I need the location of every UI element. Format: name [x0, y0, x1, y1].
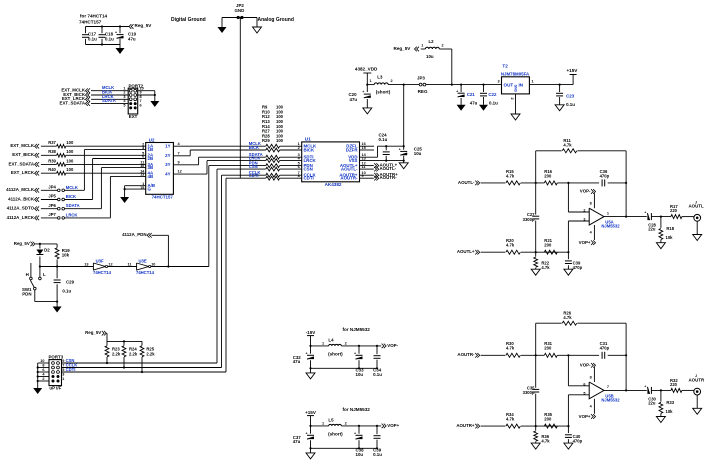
- svg-text:4.7k: 4.7k: [506, 346, 515, 351]
- svg-text:9: 9: [62, 359, 64, 363]
- svg-text:200: 200: [544, 417, 552, 422]
- svg-text:8: 8: [590, 375, 592, 379]
- svg-text:5: 5: [123, 104, 125, 108]
- svg-text:C22: C22: [488, 92, 497, 97]
- svg-text:10u: 10u: [356, 452, 364, 457]
- svg-text:AOUTL: AOUTL: [689, 204, 704, 209]
- svg-text:3B: 3B: [148, 165, 154, 170]
- svg-text:(short): (short): [376, 90, 391, 95]
- svg-text:4B: 4B: [148, 174, 154, 179]
- svg-text:U1: U1: [305, 136, 311, 141]
- svg-text:EXT_LRCK: EXT_LRCK: [11, 170, 35, 175]
- svg-text:2: 2: [510, 98, 514, 100]
- svg-text:4112A_PDN: 4112A_PDN: [122, 232, 146, 237]
- svg-text:EXT_SDATA: EXT_SDATA: [9, 161, 35, 166]
- svg-text:+: +: [456, 89, 458, 93]
- svg-text:5: 5: [62, 368, 64, 372]
- svg-text:1: 1: [532, 80, 534, 84]
- svg-text:10u: 10u: [356, 372, 364, 377]
- svg-text:2.2k: 2.2k: [112, 351, 121, 356]
- svg-text:10k: 10k: [666, 409, 674, 414]
- svg-text:2Y: 2Y: [165, 153, 170, 158]
- svg-text:47u: 47u: [293, 359, 301, 364]
- svg-text:CDTI: CDTI: [249, 173, 259, 178]
- svg-text:for 74HCT14: for 74HCT14: [80, 14, 108, 19]
- svg-text:6: 6: [140, 104, 142, 108]
- svg-text:1B: 1B: [148, 147, 154, 152]
- svg-text:4.7k: 4.7k: [506, 243, 515, 248]
- svg-text:6: 6: [142, 155, 144, 159]
- svg-text:JP6: JP6: [48, 203, 56, 208]
- svg-text:L2: L2: [429, 39, 435, 44]
- svg-text:L5: L5: [328, 417, 334, 422]
- svg-text:0.1u: 0.1u: [489, 101, 498, 106]
- svg-text:10: 10: [151, 262, 155, 266]
- svg-text:VOP+: VOP+: [387, 423, 399, 428]
- svg-text:6: 6: [42, 368, 44, 372]
- svg-text:Reg_5V: Reg_5V: [14, 241, 30, 246]
- svg-text:LRCK: LRCK: [66, 212, 78, 217]
- svg-text:2.2k: 2.2k: [146, 351, 155, 356]
- svg-text:8: 8: [298, 174, 300, 178]
- svg-text:1: 1: [322, 421, 324, 425]
- svg-text:EXT_SDATA: EXT_SDATA: [60, 100, 86, 105]
- svg-text:GND: GND: [235, 8, 245, 13]
- svg-text:EXT: EXT: [129, 114, 138, 119]
- svg-text:U2: U2: [149, 137, 155, 142]
- svg-text:+: +: [644, 211, 646, 215]
- svg-text:H: H: [26, 272, 29, 277]
- svg-text:13: 13: [84, 262, 88, 266]
- svg-text:VOP-: VOP-: [580, 362, 591, 367]
- svg-text:NJM5532: NJM5532: [601, 224, 620, 229]
- svg-text:SDATA: SDATA: [66, 203, 80, 208]
- svg-text:1Y: 1Y: [165, 144, 170, 149]
- svg-text:3: 3: [583, 218, 585, 222]
- svg-text:(short): (short): [328, 431, 343, 436]
- svg-text:G: G: [148, 187, 152, 192]
- svg-text:for NJM5532: for NJM5532: [343, 407, 371, 412]
- svg-text:R33: R33: [666, 400, 674, 405]
- svg-text:8: 8: [42, 363, 44, 367]
- svg-text:47u: 47u: [293, 439, 301, 444]
- svg-text:100: 100: [66, 149, 74, 154]
- svg-text:+: +: [399, 148, 401, 152]
- svg-text:3300p: 3300p: [523, 217, 535, 222]
- svg-text:4112A_SDTO: 4112A_SDTO: [7, 206, 35, 211]
- svg-text:7: 7: [607, 385, 609, 389]
- svg-text:NJM78M05FA: NJM78M05FA: [501, 71, 530, 76]
- svg-text:220: 220: [670, 208, 678, 213]
- svg-text:74HCT157: 74HCT157: [79, 20, 102, 25]
- svg-text:CDTI: CDTI: [304, 176, 314, 181]
- svg-text:OUT: OUT: [504, 83, 514, 88]
- svg-text:+15V: +15V: [305, 410, 317, 415]
- svg-text:470p: 470p: [600, 173, 610, 178]
- svg-text:3: 3: [142, 146, 144, 150]
- svg-text:R38: R38: [48, 149, 56, 154]
- svg-text:10k: 10k: [666, 235, 674, 240]
- svg-text:200: 200: [544, 173, 552, 178]
- svg-text:10k: 10k: [62, 253, 70, 258]
- svg-text:PDN: PDN: [22, 291, 31, 296]
- svg-text:+: +: [354, 351, 356, 355]
- svg-text:NJM5532: NJM5532: [601, 397, 620, 402]
- svg-text:BICK: BICK: [66, 194, 76, 199]
- svg-text:6: 6: [583, 382, 585, 386]
- svg-text:VOP-: VOP-: [387, 343, 398, 348]
- svg-text:47u: 47u: [350, 97, 358, 102]
- svg-text:22u: 22u: [648, 227, 656, 232]
- svg-text:100: 100: [66, 158, 74, 163]
- svg-text:2: 2: [298, 146, 300, 150]
- svg-text:L: L: [43, 272, 46, 277]
- svg-text:1: 1: [607, 211, 609, 215]
- svg-text:2: 2: [391, 79, 393, 83]
- svg-text:C21: C21: [467, 92, 476, 97]
- svg-text:9: 9: [178, 160, 180, 164]
- svg-text:74HCT14: 74HCT14: [136, 270, 155, 275]
- svg-text:100: 100: [66, 140, 74, 145]
- svg-text:BICK: BICK: [249, 145, 259, 150]
- svg-text:47u: 47u: [128, 37, 136, 42]
- svg-text:11: 11: [127, 262, 131, 266]
- svg-text:CSN: CSN: [249, 164, 258, 169]
- svg-text:VOP-: VOP-: [580, 189, 591, 194]
- svg-text:JP7: JP7: [48, 212, 56, 217]
- svg-text:3Y: 3Y: [165, 162, 170, 167]
- svg-text:0.1u: 0.1u: [566, 102, 575, 107]
- svg-text:Reg_5V: Reg_5V: [135, 23, 153, 28]
- svg-text:D2: D2: [44, 248, 50, 253]
- svg-text:0.1u: 0.1u: [373, 372, 382, 377]
- svg-text:L4: L4: [328, 337, 334, 342]
- svg-text:C23: C23: [566, 94, 575, 99]
- svg-text:R18: R18: [666, 226, 674, 231]
- svg-text:4112A_LRCK: 4112A_LRCK: [7, 215, 35, 220]
- svg-text:uP I/F: uP I/F: [49, 385, 61, 390]
- svg-text:+: +: [362, 90, 364, 94]
- svg-text:1: 1: [322, 341, 324, 345]
- svg-text:12: 12: [178, 170, 182, 174]
- svg-text:U3F: U3F: [96, 258, 104, 263]
- svg-text:4.7k: 4.7k: [563, 143, 572, 148]
- svg-text:0.1u: 0.1u: [105, 37, 114, 42]
- svg-text:22u: 22u: [648, 400, 656, 405]
- svg-text:4.7k: 4.7k: [506, 417, 515, 422]
- svg-text:+: +: [644, 384, 646, 388]
- svg-text:AK4382: AK4382: [325, 182, 342, 187]
- svg-text:100: 100: [276, 138, 284, 143]
- svg-text:Digital Ground: Digital Ground: [171, 17, 206, 23]
- svg-text:1: 1: [62, 377, 64, 381]
- svg-text:5: 5: [583, 391, 585, 395]
- svg-text:4382_VDD: 4382_VDD: [355, 67, 378, 72]
- svg-text:0.1u: 0.1u: [379, 137, 388, 142]
- svg-text:6: 6: [298, 165, 300, 169]
- svg-text:R29: R29: [262, 138, 270, 143]
- svg-text:10u: 10u: [414, 151, 422, 156]
- svg-text:470p: 470p: [573, 439, 583, 444]
- svg-text:2.2k: 2.2k: [129, 351, 138, 356]
- svg-text:0.1u: 0.1u: [88, 37, 97, 42]
- svg-text:470p: 470p: [573, 265, 583, 270]
- svg-text:Reg_5V: Reg_5V: [85, 330, 101, 335]
- svg-text:2B: 2B: [148, 156, 154, 161]
- svg-text:12: 12: [108, 262, 112, 266]
- svg-text:DZFR: DZFR: [346, 147, 359, 152]
- svg-text:200: 200: [544, 346, 552, 351]
- svg-text:REG: REG: [418, 89, 428, 94]
- svg-text:AOUTL-: AOUTL-: [380, 166, 397, 171]
- svg-text:8: 8: [590, 202, 592, 206]
- svg-text:470p: 470p: [600, 346, 610, 351]
- svg-text:R39: R39: [48, 158, 56, 163]
- svg-text:4.7k: 4.7k: [541, 439, 550, 444]
- svg-text:AOUTL-: AOUTL-: [341, 166, 358, 171]
- svg-text:100: 100: [66, 167, 74, 172]
- svg-text:U3E: U3E: [139, 258, 147, 263]
- svg-text:C29: C29: [66, 279, 75, 284]
- svg-text:(short): (short): [328, 351, 343, 356]
- svg-text:+15V: +15V: [567, 68, 579, 73]
- svg-text:4.7k: 4.7k: [563, 315, 572, 320]
- svg-text:EXT_BICK: EXT_BICK: [12, 152, 35, 157]
- svg-text:JP4: JP4: [48, 184, 56, 189]
- svg-text:JP3: JP3: [417, 76, 425, 81]
- svg-text:10u: 10u: [426, 54, 434, 59]
- svg-text:AOUTR: AOUTR: [689, 377, 705, 382]
- svg-text:10: 10: [40, 359, 44, 363]
- svg-text:Analog Ground: Analog Ground: [258, 17, 294, 23]
- svg-text:1: 1: [370, 79, 372, 83]
- svg-text:VOP+: VOP+: [579, 414, 591, 419]
- svg-text:EXT_MCLK: EXT_MCLK: [10, 143, 34, 148]
- svg-text:2: 2: [345, 421, 347, 425]
- svg-text:10: 10: [140, 164, 144, 168]
- svg-text:4Y: 4Y: [165, 171, 170, 176]
- svg-text:2: 2: [442, 44, 444, 48]
- svg-text:R37: R37: [48, 140, 56, 145]
- svg-text:AOUTL-: AOUTL-: [458, 180, 475, 185]
- svg-text:0.1u: 0.1u: [373, 452, 382, 457]
- svg-text:0.1u: 0.1u: [62, 288, 71, 293]
- svg-text:AOUTR+: AOUTR+: [456, 423, 475, 428]
- svg-text:4.7k: 4.7k: [506, 173, 515, 178]
- svg-text:AOUTR-: AOUTR-: [457, 352, 475, 357]
- svg-text:3300p: 3300p: [523, 390, 535, 395]
- svg-text:AOUTR-: AOUTR-: [380, 175, 398, 180]
- svg-text:R40: R40: [48, 167, 56, 172]
- svg-text:7: 7: [62, 363, 64, 367]
- svg-text:CSN: CSN: [304, 166, 313, 171]
- svg-text:2: 2: [345, 341, 347, 345]
- svg-text:GND: GND: [513, 85, 517, 93]
- svg-text:3: 3: [498, 80, 500, 84]
- svg-text:+: +: [306, 431, 308, 435]
- svg-text:VOP+: VOP+: [579, 240, 591, 245]
- svg-text:+: +: [306, 351, 308, 355]
- svg-text:3: 3: [62, 372, 64, 376]
- svg-text:BICK: BICK: [304, 147, 316, 152]
- svg-text:JP5: JP5: [48, 194, 56, 199]
- svg-text:1: 1: [421, 44, 423, 48]
- svg-text:IN: IN: [519, 83, 524, 88]
- svg-text:7: 7: [178, 151, 180, 155]
- svg-text:9: 9: [362, 174, 364, 178]
- svg-text:SDATA: SDATA: [102, 98, 116, 103]
- svg-text:74HCT157: 74HCT157: [152, 194, 174, 199]
- svg-text:for NJM5532: for NJM5532: [343, 327, 371, 332]
- svg-text:2: 2: [583, 209, 585, 213]
- svg-text:+: +: [354, 431, 356, 435]
- svg-text:220: 220: [670, 382, 678, 387]
- svg-text:AOUTR-: AOUTR-: [340, 176, 358, 181]
- svg-text:4112A_BICK: 4112A_BICK: [8, 196, 35, 201]
- svg-text:T2: T2: [502, 64, 508, 69]
- svg-text:200: 200: [544, 243, 552, 248]
- svg-text:74HCT14: 74HCT14: [93, 270, 112, 275]
- svg-text:2: 2: [42, 377, 44, 381]
- svg-text:+: +: [115, 31, 117, 35]
- svg-text:AOUTL+: AOUTL+: [457, 249, 475, 254]
- svg-text:4112A_MCLK: 4112A_MCLK: [6, 187, 35, 192]
- svg-text:L3: L3: [377, 75, 383, 80]
- svg-text:-15V: -15V: [306, 330, 317, 335]
- svg-text:4.7k: 4.7k: [541, 265, 550, 270]
- svg-text:47u: 47u: [470, 101, 478, 106]
- svg-text:13: 13: [140, 173, 144, 177]
- svg-text:Reg_5V: Reg_5V: [394, 46, 412, 51]
- svg-text:MCLK: MCLK: [66, 185, 78, 190]
